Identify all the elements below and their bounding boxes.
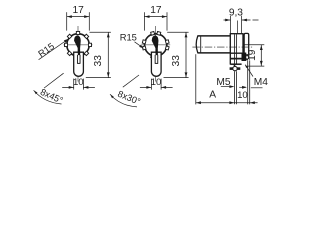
svg-text:33: 33	[171, 55, 182, 67]
svg-text:33: 33	[93, 55, 104, 67]
svg-text:10: 10	[237, 90, 248, 101]
svg-text:8x45°: 8x45°	[39, 87, 65, 106]
svg-text:17: 17	[150, 5, 162, 16]
svg-text:M4: M4	[254, 77, 268, 88]
svg-text:17: 17	[73, 5, 85, 16]
svg-text:A: A	[209, 89, 216, 100]
svg-text:9,3: 9,3	[229, 7, 243, 18]
svg-text:10: 10	[73, 77, 84, 88]
svg-text:R15: R15	[36, 40, 56, 59]
svg-text:8x30°: 8x30°	[116, 89, 142, 107]
svg-text:10: 10	[151, 77, 162, 88]
svg-text:R15: R15	[120, 31, 137, 42]
svg-text:19: 19	[247, 49, 258, 61]
